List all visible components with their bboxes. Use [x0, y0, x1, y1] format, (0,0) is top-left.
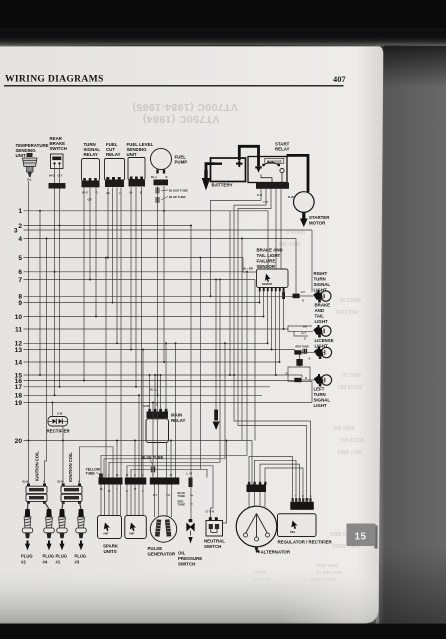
junction 47 — [263, 316, 265, 318]
bleed-through model name text — [132, 101, 238, 125]
junction 48 — [267, 342, 269, 344]
wire fuel cut relay 4 — [120, 188, 122, 478]
svg-text:LIGHT: LIGHT — [314, 288, 327, 293]
wire spark unit2 pin2 — [130, 485, 132, 516]
alternator — [236, 506, 277, 547]
wire spark unit1 pin3 — [108, 485, 110, 516]
turn signal relay label — [84, 142, 101, 157]
svg-text:11: 11 — [15, 326, 22, 333]
wire arc bar1-b — [104, 343, 225, 477]
svg-text:BLACK TUBE: BLACK TUBE — [169, 188, 188, 192]
svg-text:LICENSE: LICENSE — [315, 338, 334, 343]
wire line5 branch — [200, 258, 202, 470]
svg-text:STARTER: STARTER — [309, 215, 330, 220]
wire line 20 — [24, 440, 253, 442]
svg-text:RELAY: RELAY — [275, 147, 290, 152]
start relay label — [275, 142, 290, 152]
svg-text:RED TUBE: RED TUBE — [296, 344, 310, 348]
svg-text:BL: BL — [107, 191, 111, 195]
junction 17 — [39, 374, 41, 376]
wire license G drop — [299, 355, 301, 360]
rear brake switch label — [50, 136, 67, 151]
lamp right turn signal light — [313, 290, 331, 302]
ignition coil 2 — [58, 482, 83, 504]
wire left turn stub — [302, 379, 315, 381]
plug 1 label — [56, 554, 68, 565]
svg-text:LIGHT: LIGHT — [315, 319, 328, 324]
wire sensor pin7 — [283, 299, 285, 329]
junction 41 — [215, 279, 217, 281]
main relay connector — [143, 404, 168, 419]
temperature sending unit label — [16, 143, 49, 158]
junction 37 — [154, 374, 156, 376]
wire main relay 1 — [149, 375, 151, 409]
svg-text:UNITS: UNITS — [104, 549, 117, 554]
wire sensor pin6 — [279, 291, 281, 362]
wire start relay to mid vertical — [211, 189, 262, 296]
brake and tail light failure sensor label — [257, 248, 283, 270]
svg-text:Y·R: Y·R — [263, 200, 268, 204]
svg-text:O: O — [305, 376, 307, 380]
wire line 11 — [24, 328, 289, 330]
svg-text:IGNITION COIL: IGNITION COIL — [35, 451, 40, 481]
wire bar1 pin5 — [116, 441, 118, 478]
red tube marker label — [178, 500, 194, 507]
oil pressure switch label — [178, 551, 202, 567]
junction 45 — [190, 225, 192, 227]
wire starter cable — [287, 155, 309, 192]
wire to ground arrow — [215, 280, 217, 410]
junction 1 — [54, 271, 56, 273]
wire temp sender G/L — [28, 181, 30, 484]
junction 12 — [163, 361, 165, 363]
wire line 1 elbow — [267, 211, 269, 269]
wire line 15 elbow — [301, 375, 303, 378]
junction 32 — [142, 349, 144, 351]
wire line 19 elbow — [311, 382, 313, 403]
wire fuel pump BL-L — [157, 186, 159, 395]
wire line 3 elbow — [311, 230, 313, 292]
wire spark unit1 pin6 — [120, 485, 122, 516]
svg-text:20: 20 — [15, 438, 23, 445]
svg-text:5: 5 — [18, 255, 22, 262]
wire line 4 — [24, 238, 297, 240]
junction 16 — [39, 210, 41, 212]
svg-text:LT G·R: LT G·R — [206, 510, 215, 514]
lamp license light — [309, 347, 332, 361]
wire line 5 elbow — [243, 258, 257, 272]
wire line 20 elbow — [251, 441, 253, 485]
svg-text:RELAY: RELAY — [84, 152, 99, 157]
junction 22 — [275, 374, 277, 376]
wire brake light BR drop — [287, 326, 289, 329]
wire spark unit2 pin3 — [134, 485, 136, 516]
svg-text:BL·L: BL·L — [151, 175, 158, 179]
wire line 2 elbow — [190, 226, 192, 522]
svg-text:6: 6 — [18, 269, 22, 276]
main relay — [146, 419, 169, 443]
svg-text:BRAKE AND: BRAKE AND — [257, 248, 283, 253]
black tube connector — [156, 188, 188, 194]
junction 52 — [246, 271, 248, 273]
wire line 1 — [24, 210, 269, 212]
svg-text:#1: #1 — [56, 560, 61, 565]
svg-text:»»: »» — [190, 502, 194, 506]
svg-text:BL / BR: BL / BR — [243, 267, 253, 271]
svg-text:WIRING DIAGRAMS: WIRING DIAGRAMS — [5, 74, 104, 85]
svg-text:BRAKE: BRAKE — [315, 303, 331, 308]
wire arc bar2-b — [131, 469, 207, 477]
wire line 7 — [24, 279, 256, 281]
wire line 8 — [24, 295, 294, 297]
svg-text:90518 8: 90518 8 — [286, 228, 305, 234]
wire spark unit2 pin5 — [142, 485, 144, 516]
wire alternator Y2 — [255, 460, 297, 501]
page bottom curl shading — [0, 567, 379, 624]
svg-text:UNIT: UNIT — [16, 153, 27, 158]
svg-text:RELAY: RELAY — [106, 152, 121, 157]
wire brake switch G-Y — [59, 189, 61, 387]
wire sensor pin3 — [267, 291, 269, 343]
svg-text:NEUTRAL: NEUTRAL — [204, 539, 225, 544]
connector bar spark unit 1 — [99, 478, 123, 485]
svg-text:PLUG: PLUG — [21, 554, 33, 559]
wire main relay 3 — [160, 375, 162, 409]
junction 34 — [157, 374, 159, 376]
wire alternator pin2 — [254, 492, 256, 507]
fuel pump label — [175, 155, 188, 165]
svg-text:UNIT: UNIT — [127, 152, 138, 157]
wire labels above bars — [100, 475, 173, 477]
wire plug lead 2 — [27, 502, 30, 509]
wire fuel cut relay 3 — [116, 188, 118, 344]
junction 33 — [152, 402, 154, 404]
svg-text:80518 851: 80518 851 — [337, 383, 362, 389]
blue tube inline connector — [151, 467, 155, 473]
wire sensor pin4 — [271, 291, 273, 350]
pulse generator label — [148, 546, 176, 557]
svg-text:PUMP: PUMP — [175, 160, 188, 165]
fuel level sending unit — [128, 158, 145, 195]
lamp brake and tail light — [302, 325, 331, 341]
wire pulse generator pin1 — [154, 485, 156, 518]
spark unit 2 — [125, 516, 147, 539]
svg-text:98512 85: 98512 85 — [339, 296, 361, 302]
lamp left turn signal light — [314, 374, 332, 386]
svg-text:3: 3 — [14, 227, 18, 234]
wire start relay to regulator BR — [238, 189, 307, 502]
junction 21 — [233, 374, 235, 376]
junction 14 — [105, 257, 107, 259]
license light label — [315, 338, 334, 349]
svg-text:G·W: G·W — [57, 412, 63, 416]
bottom scanner black band — [0, 624, 446, 639]
svg-text:PRESSURE: PRESSURE — [178, 556, 202, 561]
svg-text:LIGHT: LIGHT — [314, 403, 327, 408]
junction 18 — [54, 394, 56, 396]
svg-text:9817 2851: 9817 2851 — [337, 448, 362, 454]
svg-text:19: 19 — [15, 400, 23, 407]
wire line 13 — [24, 349, 295, 351]
wire line 9 — [24, 302, 260, 304]
svg-text:15: 15 — [354, 532, 366, 543]
junction 15 — [163, 210, 165, 212]
svg-text:4: 4 — [18, 236, 22, 243]
junction 8 — [116, 342, 118, 344]
svg-text:B: B — [166, 175, 168, 179]
wire line 12 — [24, 342, 268, 344]
ignition coil 1 — [23, 482, 48, 504]
svg-text:G·R: G·R — [257, 193, 262, 197]
spark plug 4 — [44, 509, 54, 550]
junction 11 — [157, 394, 159, 396]
svg-text:17: 17 — [15, 384, 23, 391]
wire line 3 — [24, 229, 313, 231]
alternator connector — [247, 482, 267, 492]
wire node4 to coil1 — [45, 239, 47, 484]
junction 13 — [46, 238, 48, 240]
junction 9 — [130, 349, 132, 351]
junction 42 — [241, 238, 243, 240]
wire turn relay W-G — [83, 188, 85, 381]
header rule — [4, 85, 344, 87]
top black band — [0, 0, 446, 31]
wire line 15 — [24, 374, 303, 376]
yellow tube label — [86, 468, 101, 476]
spark plug 1 — [57, 509, 67, 550]
wire main relay out — [166, 443, 168, 478]
blue tube label — [142, 456, 164, 465]
junction 30 — [226, 440, 228, 442]
wire fuel level 2 — [135, 187, 137, 387]
wire line 5 — [24, 257, 244, 259]
connector right turn light — [293, 290, 306, 302]
junction 26 — [62, 440, 64, 442]
connector inline ground — [296, 359, 302, 366]
wire sensor pin1 — [259, 291, 261, 303]
page — [0, 46, 383, 624]
wire arc bar2-a — [127, 466, 213, 518]
wire pulse generator pin3 — [166, 485, 168, 518]
wire fuel pump B — [163, 186, 165, 362]
svg-text:B02 1851: B02 1851 — [335, 308, 358, 314]
wire start relay to sensor 2 — [280, 189, 282, 269]
svg-text:SIGNAL: SIGNAL — [314, 398, 331, 403]
wire line1 left branch — [39, 211, 41, 375]
wire line 2 — [24, 225, 192, 227]
svg-text:AND: AND — [315, 308, 325, 313]
bleed-through faint right column — [278, 228, 364, 548]
svg-text:TAIL: TAIL — [315, 314, 325, 319]
wire alternator Y3 — [260, 464, 300, 501]
svg-text:RELAY: RELAY — [171, 418, 186, 423]
svg-text:407: 407 — [333, 75, 346, 84]
wire bar3 pin1 — [152, 403, 154, 478]
wire bar3 pin2 — [157, 375, 159, 478]
svg-text:VT750C (1984): VT750C (1984) — [143, 113, 220, 125]
connector inline mid — [214, 410, 218, 421]
svg-text:2: 2 — [18, 223, 22, 230]
svg-text:BL / L: BL / L — [150, 388, 158, 392]
junction 20 — [229, 374, 231, 376]
junction 38 — [160, 374, 162, 376]
wire rectifier bottom — [62, 426, 64, 441]
wire line 7 elbow — [254, 280, 256, 441]
svg-text:MOTOR: MOTOR — [309, 221, 326, 226]
wire fuel cut relay 2 — [112, 188, 114, 303]
wire alternator Y1 — [249, 457, 293, 502]
svg-text:GR: GR — [88, 198, 92, 202]
wire line 4 elbow — [295, 239, 297, 294]
wire spark unit1 pin4 — [112, 485, 114, 516]
plug 3 label — [75, 554, 87, 565]
wire sensor pin5 — [275, 291, 277, 375]
svg-text:80212 051: 80212 051 — [339, 436, 364, 442]
junction 6 — [107, 257, 109, 259]
wire line 13 elbow — [294, 350, 296, 352]
wire main relay 4 — [165, 343, 167, 409]
svg-text:MAIN: MAIN — [171, 413, 182, 418]
right turn signal light label — [314, 271, 331, 293]
svg-text:SWITCH: SWITCH — [50, 146, 67, 151]
temperature sending unit — [23, 153, 38, 182]
fuel cut relay label — [106, 142, 121, 157]
wire neutral L — [222, 441, 227, 524]
ground alternator — [255, 548, 259, 554]
svg-text:TURN: TURN — [314, 392, 326, 397]
wire pulse generator pin2 — [158, 485, 160, 518]
starter motor — [294, 192, 315, 213]
svg-text:PLUG: PLUG — [75, 554, 87, 559]
svg-text:W·G: W·G — [82, 191, 88, 195]
ground mid arrow — [213, 422, 220, 431]
junction 50 — [279, 361, 281, 363]
main relay label — [171, 413, 186, 424]
wire line 16 — [24, 380, 295, 382]
svg-text:REGULATOR / RECTIFIER: REGULATOR / RECTIFIER — [278, 540, 333, 545]
svg-text:TURN: TURN — [314, 277, 326, 282]
wire line 18 — [24, 394, 263, 396]
junction 35 — [175, 342, 177, 344]
wire turn relay O — [95, 188, 97, 317]
junction 44 — [210, 295, 212, 297]
wire fuel level W — [130, 187, 132, 350]
svg-text:IGNITION COIL: IGNITION COIL — [68, 452, 73, 482]
fuel level sending unit label — [127, 142, 154, 157]
svg-text:BL/W: BL/W — [143, 405, 150, 408]
svg-text:VT700C (1984-1985): VT700C (1984-1985) — [132, 101, 238, 113]
wire main relay 2 — [154, 375, 156, 409]
wire start relay to regulator G — [234, 189, 311, 502]
junction 28 — [134, 440, 136, 442]
wire coil2 right feed — [80, 447, 114, 484]
junction 36 — [149, 374, 151, 376]
wire spark unit1 pin5 — [116, 485, 118, 516]
svg-text:PLUG: PLUG — [56, 554, 68, 559]
wire start relay to sensor 1 — [275, 189, 277, 269]
brake and tail light label — [315, 303, 331, 325]
svg-text:O: O — [302, 299, 304, 303]
plug 4 label — [43, 554, 55, 565]
wire line 6 — [24, 271, 248, 273]
wire brake light BR — [288, 325, 312, 327]
svg-text:GENERATOR: GENERATOR — [148, 552, 176, 557]
svg-text:BLUE TUBE: BLUE TUBE — [169, 195, 186, 199]
svg-text:FAILURE: FAILURE — [257, 259, 276, 264]
spark plug 3 — [76, 509, 86, 550]
connector left turn light — [286, 372, 308, 383]
svg-text:G: G — [304, 337, 306, 341]
wire fuel level 3 — [141, 187, 143, 478]
battery — [211, 158, 246, 188]
junction 31 — [138, 394, 140, 396]
wire node5 to bar1 — [105, 258, 107, 478]
spark units label — [103, 544, 119, 555]
svg-text:ALTERNATOR: ALTERNATOR — [261, 550, 291, 555]
svg-text:OIL: OIL — [178, 551, 186, 556]
wire battery negative cable — [206, 164, 215, 177]
junction 40 — [52, 402, 54, 404]
svg-text:9: 9 — [18, 300, 22, 307]
wire brake switch W-G — [54, 189, 56, 396]
svg-text:SWITCH: SWITCH — [178, 562, 195, 567]
wire arc bar1-a — [101, 272, 247, 478]
svg-text:RIGHT: RIGHT — [314, 271, 328, 276]
svg-text:1: 1 — [18, 208, 22, 215]
spark plug 2 — [22, 509, 32, 550]
connector license light — [294, 350, 301, 354]
wire line 14 — [24, 361, 280, 363]
wire arc bar1-c — [109, 280, 220, 478]
junction 27 — [116, 440, 118, 442]
wire plug lead 3 — [80, 502, 82, 509]
svg-text:TUBE: TUBE — [178, 503, 186, 507]
regulator rectifier connector — [290, 496, 314, 510]
svg-text:TUBE: TUBE — [178, 494, 186, 498]
junction 25 — [28, 440, 30, 442]
svg-text:#2: #2 — [21, 560, 26, 565]
svg-text:PLUG: PLUG — [43, 554, 55, 559]
svg-text:14: 14 — [15, 359, 23, 366]
connector bar pulse generator — [150, 478, 180, 485]
wire spark unit2 pin4 — [138, 485, 140, 516]
svg-text:9851 28: 9851 28 — [342, 371, 361, 377]
svg-text:#3: #3 — [75, 560, 80, 565]
wire line 10 — [24, 316, 264, 318]
start relay — [248, 157, 294, 205]
wire alternator pin3 — [259, 492, 261, 507]
svg-text:G/L: G/L — [27, 178, 32, 182]
wire mid vertical A — [229, 211, 231, 375]
connector bar spark unit 2 — [125, 478, 147, 485]
junction 2 — [59, 225, 61, 227]
bleed-through bottom faint text — [253, 563, 342, 582]
ground oil pressure switch — [188, 537, 192, 544]
blue tube connector — [156, 195, 186, 203]
svg-text:L/Y: L/Y — [301, 290, 305, 294]
svg-text:SPARK: SPARK — [103, 544, 119, 549]
svg-text:10: 10 — [15, 314, 23, 321]
junction 46 — [259, 302, 261, 304]
svg-text:Y·G: Y·G — [166, 495, 170, 497]
junction 10 — [135, 386, 137, 388]
svg-text:REG: REG — [290, 531, 295, 534]
svg-text:7: 7 — [18, 277, 22, 284]
regulator rectifier — [278, 514, 317, 537]
svg-text:W·G: W·G — [49, 174, 55, 178]
spark unit 1 — [98, 516, 122, 539]
wire rectifier top — [52, 403, 54, 417]
